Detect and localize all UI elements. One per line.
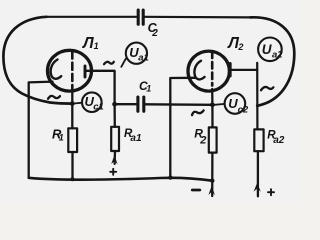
- node junction at L1 grid: [70, 101, 75, 106]
- wire L2 grid lead to node: [211, 89, 213, 105]
- wire R2 top: [211, 105, 213, 128]
- svg-text:1: 1: [146, 84, 151, 94]
- svg-text:a2: a2: [273, 135, 285, 146]
- meter circle Ua2: [258, 38, 282, 62]
- node junction at L1 anode / C1 / Ra1: [112, 102, 117, 107]
- triode U2 (L2) envelope: [188, 51, 229, 91]
- wire C1 right to L2 grid node: [145, 103, 212, 106]
- minus sign at R2 terminal: [192, 189, 200, 192]
- waveform tilde near L2 grid: [192, 110, 204, 115]
- wire Ra1 bottom to + terminal: [113, 151, 116, 164]
- anode of L1: [84, 66, 87, 77]
- wire Ra1 top: [113, 104, 116, 127]
- svg-text:a2: a2: [272, 49, 283, 60]
- svg-text:Л: Л: [82, 35, 94, 52]
- resistor Ra1: [111, 127, 119, 151]
- resistor Ra2: [254, 129, 263, 151]
- node junction at L2 grid / C1 / R2: [210, 102, 215, 107]
- wire top bus left of C2: [47, 16, 138, 18]
- node junction R1 / rail: [70, 177, 74, 181]
- wire top bus right of C2: [144, 16, 251, 19]
- svg-text:a1: a1: [138, 52, 149, 63]
- wire R1 bottom: [71, 152, 73, 179]
- meter circle Uc2: [225, 93, 246, 114]
- svg-text:1: 1: [59, 132, 64, 142]
- terminal arrow - under R2: [208, 186, 215, 196]
- svg-text:1: 1: [94, 41, 99, 51]
- wire L2 anode lead to vertical: [230, 69, 257, 71]
- plus sign at Ra2 terminal: [268, 189, 274, 195]
- wire right envelope loop (C2 right to anode of L2): [251, 17, 295, 105]
- wire L1 cathode lead: [29, 82, 53, 178]
- meter circle Uc1: [82, 92, 102, 112]
- svg-text:2: 2: [237, 42, 243, 52]
- annotation pointer Ua1: [121, 59, 126, 67]
- annotation stub Uc1: [74, 102, 82, 105]
- capacitor C1: [138, 97, 144, 111]
- waveform tilde near L2 anode: [261, 87, 273, 90]
- terminal arrow + under Ra2: [254, 183, 261, 192]
- capacitor C2: [138, 10, 143, 24]
- wire L1 grid lead to node: [71, 90, 73, 104]
- svg-text:a1: a1: [130, 133, 142, 144]
- cathode of L2: [194, 61, 204, 80]
- triode U1 (L1) envelope: [48, 50, 92, 91]
- wire L1 anode lead to corner and down to node: [85, 71, 115, 104]
- svg-text:2: 2: [199, 134, 206, 146]
- svg-text:c2: c2: [238, 104, 249, 115]
- anode of L2: [229, 64, 232, 77]
- annotation stub Uc2: [215, 103, 225, 106]
- svg-text:c1: c1: [93, 102, 104, 113]
- node junction L2 cathode / rail: [168, 175, 172, 179]
- waveform tilde near L1 anode: [104, 62, 114, 64]
- terminal arrow + under Ra1: [111, 155, 117, 164]
- wire L2 cathode lead: [170, 78, 195, 178]
- plus sign at Ra1 terminal: [110, 169, 116, 175]
- wire R1 top: [71, 104, 73, 129]
- cathode of L1: [51, 60, 62, 79]
- wire Ra2 bottom to + terminal: [257, 151, 259, 196]
- wire bottom rail: [29, 178, 213, 181]
- grid of L2 (dashed): [211, 52, 214, 86]
- wire C1 left: [115, 103, 137, 105]
- svg-text:2: 2: [151, 28, 158, 39]
- grid of L1 (dashed): [71, 52, 74, 89]
- wire R2 bottom: [211, 153, 213, 196]
- resistor R2: [209, 127, 217, 152]
- waveform tilde near L1 grid: [48, 96, 60, 99]
- resistor R1: [68, 128, 77, 152]
- meter circle Ua1: [126, 43, 147, 64]
- node junction R2 / rail / - terminal: [210, 179, 214, 183]
- wire L2 anode vertical (Ua2 down to Ra2): [256, 63, 258, 130]
- wire left envelope loop (C2 left to grid of L1): [3, 17, 72, 104]
